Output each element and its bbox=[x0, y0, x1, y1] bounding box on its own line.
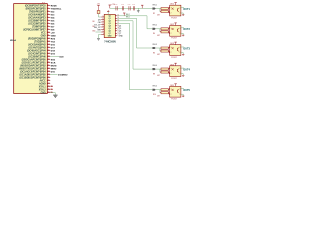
svg-text:MEGA: MEGA bbox=[10, 39, 17, 42]
svg-text:21: 21 bbox=[48, 64, 50, 66]
svg-text:59: 59 bbox=[51, 88, 53, 90]
svg-text:(OC4B/ADC1)PH4: (OC4B/ADC1)PH4 bbox=[27, 50, 46, 53]
resistor R9 bbox=[161, 89, 168, 91]
svg-text:PC817: PC817 bbox=[171, 38, 177, 40]
svg-text:VCC: VCC bbox=[41, 33, 46, 35]
IC2 right pin 5 stub bbox=[115, 25, 117, 27]
OK2 top power tick bbox=[175, 23, 177, 26]
ground symbol block 1 bbox=[182, 14, 184, 16]
IC1 pin 6 stub bbox=[47, 20, 50, 22]
svg-text:4K7: 4K7 bbox=[157, 96, 160, 98]
svg-text:GND: GND bbox=[41, 93, 46, 95]
IC2 left pin 2 stub bbox=[101, 19, 104, 21]
svg-text:RXD0: RXD0 bbox=[51, 5, 58, 7]
svg-text:(OC0B/PCINT?)PG5: (OC0B/PCINT?)PG5 bbox=[25, 6, 46, 8]
svg-text:XTAL1: XTAL1 bbox=[39, 86, 47, 89]
svg-text:7: 7 bbox=[48, 22, 49, 24]
svg-text:74HC595N: 74HC595N bbox=[104, 40, 116, 43]
svg-text:60: 60 bbox=[51, 91, 53, 93]
svg-text:(OC4C/INT3)PH5: (OC4C/INT3)PH5 bbox=[28, 53, 46, 56]
IC2 left pin 1 stub bbox=[101, 16, 104, 18]
svg-text:100n: 100n bbox=[121, 4, 124, 6]
svg-text:GND: GND bbox=[119, 36, 124, 38]
IC2 left pin 7 stub bbox=[101, 31, 104, 33]
capacitor C1 bbox=[115, 6, 117, 10]
resistor R8 bbox=[161, 71, 168, 73]
svg-text:16: 16 bbox=[48, 49, 50, 51]
resistor R4 bbox=[161, 31, 168, 33]
global label input arrow block 2 bbox=[152, 28, 156, 30]
svg-text:2: 2 bbox=[48, 7, 49, 9]
svg-text:100n: 100n bbox=[132, 4, 135, 6]
global label input arrow block 4 bbox=[152, 68, 156, 70]
wire IC2 row2 to block3 bbox=[117, 18, 152, 48]
svg-text:1: 1 bbox=[48, 4, 49, 6]
OK5 internal LED bbox=[172, 89, 174, 91]
ground symbol on rail bbox=[137, 8, 139, 10]
OK1 internal LED bbox=[172, 8, 174, 10]
OK2 internal transistor bbox=[176, 29, 178, 32]
svg-text:9: 9 bbox=[48, 28, 49, 30]
svg-text:OUT4: OUT4 bbox=[183, 69, 190, 72]
svg-text:4K7: 4K7 bbox=[157, 15, 160, 17]
capacitor C2 bbox=[121, 6, 123, 10]
OK4 top power tick bbox=[175, 63, 177, 66]
svg-text:PC817: PC817 bbox=[171, 57, 177, 59]
ground symbol block 4 bbox=[182, 74, 184, 76]
svg-text:REL1: REL1 bbox=[153, 4, 157, 6]
IC1 pin 1 stub bbox=[47, 5, 50, 7]
wire OK2 output bottom bbox=[181, 33, 183, 35]
wire IC2 row3 to block4 bbox=[117, 21, 152, 69]
IC2 right pin 6 stub bbox=[115, 27, 117, 29]
svg-text:IO6: IO6 bbox=[51, 23, 55, 25]
capacitor C3 bbox=[128, 6, 130, 10]
svg-text:GND: GND bbox=[92, 31, 95, 33]
svg-text:(OC1B/DIG2/PCINT6)PB6: (OC1B/DIG2/PCINT6)PB6 bbox=[19, 78, 46, 80]
capacitor C4 bbox=[132, 6, 134, 10]
svg-text:100n: 100n bbox=[128, 4, 131, 6]
svg-text:18: 18 bbox=[48, 55, 50, 57]
wire to left pin bbox=[96, 31, 102, 33]
wire OK3 output bottom bbox=[181, 53, 183, 55]
svg-text:11: 11 bbox=[48, 34, 50, 36]
svg-text:(ICP3/CLK0/INT7)PE7: (ICP3/CLK0/INT7)PE7 bbox=[23, 30, 46, 32]
wire OK5 output top bbox=[181, 88, 184, 90]
resistor R1 bbox=[161, 8, 168, 10]
optocoupler OK2 body bbox=[170, 26, 181, 37]
resistor R5 bbox=[161, 47, 168, 49]
svg-text:14: 14 bbox=[48, 43, 50, 45]
svg-text:R4: R4 bbox=[153, 33, 155, 35]
svg-text:REL2: REL2 bbox=[153, 25, 157, 27]
svg-text:SCK: SCK bbox=[51, 62, 56, 64]
power symbol at IC2 top pin bbox=[107, 12, 109, 15]
IC1 pin 3 stub bbox=[47, 11, 50, 13]
svg-text:MISO: MISO bbox=[51, 68, 57, 70]
global label input arrow block 5 bbox=[152, 89, 156, 91]
wire OK4 output bottom bbox=[181, 74, 183, 76]
IC1 pin 22 stub bbox=[47, 68, 50, 70]
wire net D11 bbox=[50, 74, 57, 76]
svg-text:TXD0/SCL: TXD0/SCL bbox=[51, 8, 62, 10]
svg-text:XTAL2: XTAL2 bbox=[39, 89, 47, 92]
global label input arrow block 3 bbox=[152, 47, 156, 49]
IC1 microcontroller body bbox=[14, 4, 48, 94]
svg-text:17: 17 bbox=[48, 52, 50, 54]
IC1 pin 29 stub bbox=[47, 89, 50, 91]
svg-text:(SS/OC0A/PCINT0)PB0: (SS/OC0A/PCINT0)PB0 bbox=[22, 59, 47, 62]
svg-text:23: 23 bbox=[48, 70, 50, 72]
svg-text:5: 5 bbox=[48, 16, 49, 18]
IC2 right pin 1 stub bbox=[115, 15, 117, 17]
svg-text:IO8: IO8 bbox=[51, 29, 55, 31]
svg-text:+5V: +5V bbox=[51, 32, 55, 34]
wire net D20 bbox=[50, 56, 59, 58]
svg-text:IO7: IO7 bbox=[51, 26, 55, 28]
svg-text:D10: D10 bbox=[51, 71, 56, 73]
ground symbol left-bottom of IC2 bbox=[99, 34, 102, 36]
svg-text:PC817: PC817 bbox=[171, 78, 177, 80]
svg-text:(RXD0/PCINT8)PE0: (RXD0/PCINT8)PE0 bbox=[26, 9, 47, 11]
wire IC2 row1 to block2 bbox=[117, 16, 152, 29]
svg-text:AGND: AGND bbox=[39, 83, 46, 86]
svg-text:(MOSI/SDA/PCINT2)PB2: (MOSI/SDA/PCINT2)PB2 bbox=[20, 65, 46, 68]
power symbol arrow on rail bbox=[141, 5, 143, 8]
svg-text:(RXD2/PCIN)PH0: (RXD2/PCIN)PH0 bbox=[28, 39, 46, 41]
IC1 pin 10 stub bbox=[47, 32, 50, 34]
svg-text:D18: D18 bbox=[51, 50, 56, 52]
wire OK4 output top bbox=[181, 67, 184, 69]
power symbol +5V rail start bbox=[109, 5, 111, 8]
svg-text:D19: D19 bbox=[51, 53, 56, 55]
IC1 pin 21 stub bbox=[47, 65, 50, 67]
IC2 shift register body bbox=[104, 14, 115, 37]
OK4 internal LED bbox=[172, 68, 174, 70]
svg-text:22: 22 bbox=[48, 67, 50, 69]
svg-text:OUT2: OUT2 bbox=[183, 28, 190, 31]
IC1 pin 16 stub bbox=[47, 50, 50, 52]
IC1 pin 7 stub bbox=[47, 23, 50, 25]
wire arrow to resistors block 2 bbox=[156, 28, 161, 30]
optocoupler OK4 body bbox=[170, 66, 181, 77]
svg-text:19: 19 bbox=[48, 58, 50, 60]
ground symbol block 5 bbox=[182, 95, 184, 97]
svg-text:IO5: IO5 bbox=[51, 20, 55, 22]
IC2 left pin 8 stub bbox=[101, 34, 104, 36]
IC2 left pin 3 stub bbox=[101, 21, 104, 23]
svg-text:100n: 100n bbox=[115, 4, 118, 6]
wire OK3 output top bbox=[181, 46, 184, 48]
wire OK5 output bottom bbox=[181, 94, 183, 96]
IC2 left pin 5 stub bbox=[101, 26, 104, 28]
OK2 internal LED bbox=[172, 28, 174, 30]
svg-text:R10: R10 bbox=[153, 94, 156, 96]
svg-text:IO3: IO3 bbox=[51, 14, 55, 16]
IC1 pin 28 stub bbox=[47, 86, 50, 88]
svg-text:25: 25 bbox=[48, 76, 50, 78]
IC1 pin 19 stub bbox=[47, 59, 50, 61]
svg-text:10K: 10K bbox=[92, 26, 95, 28]
IC1 pin 27 stub bbox=[47, 83, 50, 85]
wire arrow to resistors block 4 bbox=[156, 68, 161, 70]
wire OK1 output bottom bbox=[181, 13, 183, 15]
svg-text:11: 11 bbox=[102, 18, 104, 20]
IC1 pin 15 stub bbox=[47, 47, 50, 49]
svg-text:R6: R6 bbox=[153, 52, 155, 54]
IC1 pin 13 stub bbox=[47, 41, 50, 43]
ground symbol block 2 bbox=[182, 34, 184, 36]
wire arrow to resistors block 1 bbox=[156, 8, 161, 10]
svg-text:10: 10 bbox=[48, 31, 50, 33]
IC2 right pin 7 stub bbox=[115, 30, 117, 32]
IC2 left pin 4 stub bbox=[101, 24, 104, 26]
IC1 pin 25 stub bbox=[47, 77, 50, 79]
svg-text:D16: D16 bbox=[51, 44, 56, 46]
OK4 internal transistor bbox=[176, 69, 178, 72]
svg-text:(OC3C/INT5)PE5: (OC3C/INT5)PE5 bbox=[28, 24, 46, 26]
wire arrow to resistors block 3 bbox=[156, 47, 161, 49]
svg-text:20: 20 bbox=[48, 61, 50, 63]
OK1 top power tick bbox=[175, 3, 177, 6]
svg-text:(TXD0/PDO)PE1: (TXD0/PDO)PE1 bbox=[29, 12, 46, 14]
svg-text:(T3/INT6)PE6: (T3/INT6)PE6 bbox=[32, 27, 46, 29]
svg-text:(OC1A/DIG1/PCINT5)PB5: (OC1A/DIG1/PCINT5)PB5 bbox=[19, 74, 46, 77]
global label input arrow block 1 bbox=[152, 8, 156, 10]
svg-text:(OC2A/OC0/PCINT4)PB4: (OC2A/OC0/PCINT4)PB4 bbox=[20, 71, 46, 74]
svg-text:OUT5: OUT5 bbox=[183, 89, 190, 92]
IC2 right pin 3 stub bbox=[115, 20, 117, 22]
svg-text:4K7: 4K7 bbox=[157, 35, 160, 37]
svg-text:D11MISO: D11MISO bbox=[58, 74, 68, 76]
IC2 right pin 4 stub bbox=[115, 22, 117, 24]
svg-text:GND: GND bbox=[51, 35, 56, 37]
svg-text:REL5: REL5 bbox=[153, 86, 157, 88]
resistor R6 bbox=[161, 50, 168, 52]
svg-text:(XCK0/AIN0)PE2: (XCK0/AIN0)PE2 bbox=[28, 14, 46, 17]
svg-text:28: 28 bbox=[48, 85, 50, 87]
svg-text:10: 10 bbox=[102, 26, 104, 28]
svg-text:OUT1: OUT1 bbox=[183, 8, 190, 11]
svg-text:REL3: REL3 bbox=[153, 44, 157, 46]
IC1 pin 11 stub bbox=[47, 35, 50, 37]
IC1 pin 14 stub bbox=[47, 44, 50, 46]
IC1 pin 23 stub bbox=[47, 71, 50, 73]
svg-text:(MISO/TXD1/PCINT3)PB3: (MISO/TXD1/PCINT3)PB3 bbox=[19, 69, 46, 71]
svg-text:8: 8 bbox=[48, 25, 49, 27]
OK3 internal transistor bbox=[176, 48, 178, 51]
optocoupler OK3 body bbox=[170, 45, 181, 56]
IC1 pin 26 stub bbox=[47, 80, 50, 82]
ground symbol below IC1 bbox=[53, 94, 58, 96]
resistor R11 pullup vertical bbox=[97, 11, 100, 14]
OK5 top power tick bbox=[175, 84, 177, 87]
svg-text:58: 58 bbox=[51, 85, 53, 87]
IC1 pin 30 stub bbox=[47, 92, 50, 94]
wire arrow to resistors block 5 bbox=[156, 89, 161, 91]
svg-text:D20: D20 bbox=[60, 56, 65, 58]
resistor R3 bbox=[161, 28, 168, 30]
svg-text:REL4: REL4 bbox=[153, 65, 157, 67]
OK5 internal transistor bbox=[176, 90, 178, 93]
wire power rail bbox=[110, 7, 153, 9]
IC1 pin 8 stub bbox=[47, 26, 50, 28]
svg-text:16: 16 bbox=[102, 31, 104, 33]
svg-text:15: 15 bbox=[48, 46, 50, 48]
svg-text:(OC2B/INT2)PH6: (OC2B/INT2)PH6 bbox=[28, 57, 46, 59]
resistor R10 bbox=[161, 92, 168, 94]
svg-text:26: 26 bbox=[48, 79, 50, 81]
svg-text:RX2: RX2 bbox=[51, 38, 56, 40]
wire OK1 output top bbox=[181, 7, 184, 9]
wire to ground from IC1 bottom pins bbox=[50, 92, 55, 94]
svg-text:(OC4A/TOS)PH3: (OC4A/TOS)PH3 bbox=[29, 47, 47, 50]
IC1 pin 20 stub bbox=[47, 62, 50, 64]
svg-text:GND: GND bbox=[41, 36, 46, 38]
IC1 pin 5 stub bbox=[47, 17, 50, 19]
svg-text:PC817: PC817 bbox=[171, 99, 177, 101]
IC1 pin 17 stub bbox=[47, 53, 50, 55]
IC1 pin 12 stub bbox=[47, 38, 50, 40]
wire OK2 output top bbox=[181, 27, 184, 29]
svg-text:OUT3: OUT3 bbox=[183, 47, 190, 50]
svg-text:13: 13 bbox=[48, 40, 50, 42]
svg-text:(XCK2/AIN2)PH2: (XCK2/AIN2)PH2 bbox=[28, 44, 46, 47]
resistor R2 bbox=[161, 10, 168, 12]
svg-text:6: 6 bbox=[48, 19, 49, 21]
svg-text:3: 3 bbox=[48, 10, 49, 12]
svg-text:PC817: PC817 bbox=[171, 17, 177, 19]
svg-text:(OC3A/AIN1)PE3: (OC3A/AIN1)PE3 bbox=[28, 17, 46, 20]
svg-text:TX2: TX2 bbox=[51, 41, 56, 43]
wire pullup to pin bbox=[98, 14, 100, 18]
svg-text:4K7: 4K7 bbox=[157, 54, 160, 56]
IC1 pin 24 stub bbox=[47, 74, 50, 76]
OK3 internal LED bbox=[172, 47, 174, 49]
svg-text:4K7: 4K7 bbox=[157, 75, 160, 77]
svg-text:MR: MR bbox=[98, 29, 102, 31]
svg-text:SS0: SS0 bbox=[51, 59, 56, 61]
svg-text:14: 14 bbox=[102, 16, 104, 18]
svg-text:R8: R8 bbox=[153, 73, 155, 75]
IC2 left pin 6 stub bbox=[101, 29, 104, 31]
svg-text:30: 30 bbox=[48, 91, 50, 93]
svg-text:(SCK/SCL/PCINT1)PB1: (SCK/SCL/PCINT1)PB1 bbox=[22, 63, 47, 65]
svg-text:27: 27 bbox=[48, 82, 50, 84]
OK3 top power tick bbox=[175, 42, 177, 45]
ground symbol block 3 bbox=[182, 53, 184, 55]
svg-text:24: 24 bbox=[48, 73, 50, 75]
svg-text:12: 12 bbox=[102, 23, 104, 25]
IC1 pin 9 stub bbox=[47, 29, 50, 31]
svg-text:AVCC: AVCC bbox=[39, 80, 46, 83]
svg-text:10K: 10K bbox=[92, 21, 95, 23]
IC2 right pin 2 stub bbox=[115, 17, 117, 19]
power flag at IC2 right pin 1 bbox=[123, 13, 125, 16]
svg-text:IO4: IO4 bbox=[51, 16, 55, 19]
svg-text:(OC3B/INT4)PE4: (OC3B/INT4)PE4 bbox=[28, 20, 46, 23]
resistor R7 bbox=[161, 68, 168, 70]
OK1 internal transistor bbox=[176, 8, 178, 11]
wire IC2 row4 to block5 bbox=[117, 23, 152, 89]
IC2 right pin 9 stub bbox=[115, 35, 117, 37]
svg-text:D17: D17 bbox=[51, 47, 56, 49]
IC1 pin 4 stub bbox=[47, 14, 50, 16]
svg-text:29: 29 bbox=[48, 88, 50, 90]
IC1 pin 18 stub bbox=[47, 56, 50, 58]
svg-text:4: 4 bbox=[48, 13, 49, 15]
IC1 pin 2 stub bbox=[47, 8, 50, 10]
svg-text:(TXD2)PH1: (TXD2)PH1 bbox=[34, 42, 46, 44]
svg-text:R2: R2 bbox=[153, 13, 155, 15]
svg-text:IO2: IO2 bbox=[51, 11, 55, 13]
optocoupler OK5 body bbox=[170, 86, 181, 97]
svg-text:13: 13 bbox=[102, 21, 104, 23]
svg-text:12: 12 bbox=[48, 37, 50, 39]
optocoupler OK1 body bbox=[170, 5, 181, 16]
IC2 right pin 8 stub bbox=[115, 32, 117, 34]
svg-text:MOSI: MOSI bbox=[51, 65, 57, 67]
